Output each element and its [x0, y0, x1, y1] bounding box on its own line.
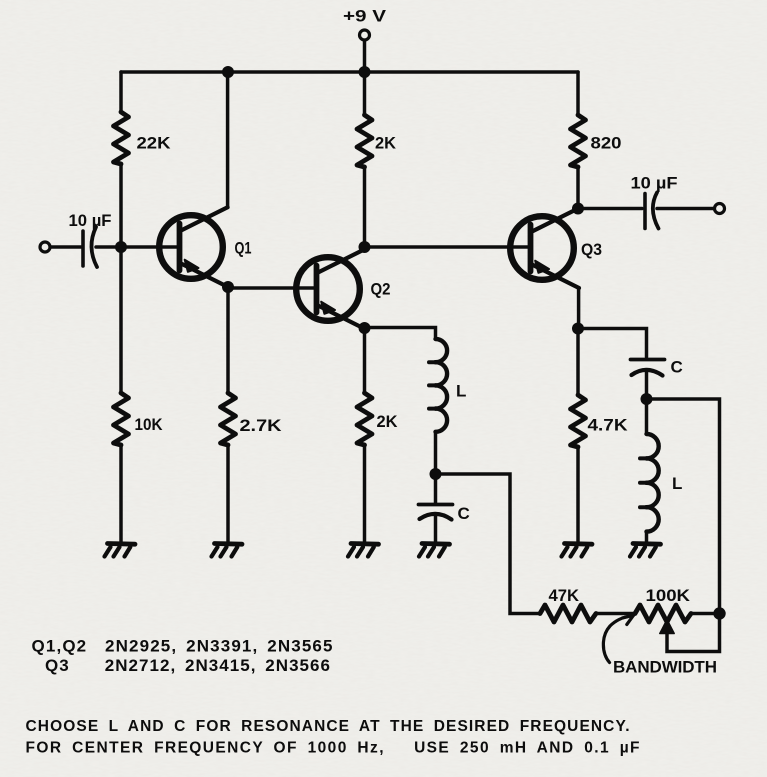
ground C1 [419, 544, 450, 557]
wire Q1 emitter down to 2.7K [226, 287, 230, 393]
potentiometer 100K track [635, 605, 691, 622]
wire 22K bottom to input node [119, 164, 123, 247]
input terminal [40, 242, 50, 252]
ground 4.7K [562, 544, 593, 557]
inductor L1 [429, 339, 447, 432]
node junction on rail at x365 [359, 66, 371, 78]
wire Q1 emitter to Q2 base [228, 286, 317, 290]
svg-text:C: C [671, 358, 683, 377]
wire 2K to ground [363, 445, 367, 542]
wire Q3 emitter riser [577, 288, 581, 329]
ground 2.7K [212, 544, 243, 557]
svg-text:Q1: Q1 [235, 239, 252, 258]
ground 2K [348, 544, 379, 557]
wire input terminal to capacitor [51, 245, 82, 249]
resistor 10K [114, 393, 129, 445]
ground L2 [630, 544, 661, 557]
capacitor C2 straight plate [631, 358, 665, 362]
svg-text:CHOOSE L AND C FOR RESONANCE A: CHOOSE L AND C FOR RESONANCE AT THE DESI… [26, 718, 630, 735]
svg-text:10 µF: 10 µF [631, 174, 678, 193]
wire collector node to output cap [578, 207, 642, 211]
wire 10K to ground [119, 445, 123, 542]
ground 10K [105, 544, 136, 557]
node Q3 emitter [572, 323, 584, 335]
wire L1 to node [434, 432, 438, 474]
wire 2K bottom to node [363, 167, 367, 247]
svg-text:Q2: Q2 [371, 280, 391, 299]
svg-text:C: C [458, 504, 470, 523]
potentiometer wiper arrow [660, 620, 674, 634]
svg-text:L: L [672, 474, 682, 493]
capacitor C2 curved plate [632, 370, 663, 376]
resistor 47K [540, 605, 596, 622]
wire rail to 22K [119, 72, 123, 112]
svg-text:FOR CENTER FREQUENCY OF 1000 H: FOR CENTER FREQUENCY OF 1000 Hz, USE 250… [26, 740, 640, 757]
output terminal [715, 204, 725, 214]
arrow bandwidth pointer [603, 615, 633, 662]
svg-text:L: L [456, 382, 466, 401]
wire node to L2 [645, 399, 649, 434]
wire output cap to terminal [657, 207, 714, 211]
node Q2 collector / Q3 base [359, 241, 371, 253]
transistor Q3 [510, 208, 579, 288]
svg-text:820: 820 [591, 134, 622, 153]
wire Q2 emitter down to 2K [363, 328, 367, 393]
wire Q1 base lead [121, 245, 179, 249]
transistor Q2 [296, 249, 365, 329]
svg-text:10 µF: 10 µF [69, 211, 112, 230]
svg-text:47K: 47K [549, 586, 580, 605]
wire 2.7K to ground [226, 445, 230, 542]
svg-text:2.7K: 2.7K [240, 416, 283, 435]
node Q2 emitter [359, 322, 371, 334]
resistor 2K emitter Q2 [357, 393, 372, 445]
resistor 4.7K [571, 395, 586, 447]
wire L2 to ground [645, 532, 649, 542]
capacitor C1 curved plate [420, 514, 452, 520]
node junction on rail at x228 (Q1 collector) [222, 66, 234, 78]
wire top supply rail [121, 70, 578, 74]
wire Q2 emitter to L1 [365, 328, 436, 340]
wire 4.7K to ground [576, 447, 580, 542]
wire right riser [647, 399, 720, 614]
node Q1 emitter [222, 281, 234, 293]
resistor 820 [571, 115, 586, 167]
svg-text:Q3 2N2712, 2N3415, 2N3566: Q3 2N2712, 2N3415, 2N3566 [45, 656, 330, 675]
wire 820 to collector node [576, 167, 580, 209]
node input/base junction [115, 241, 127, 253]
wire C1 to ground [434, 515, 438, 543]
wire C2 to node [645, 371, 649, 400]
capacitor 10uF input, curved plate [91, 227, 97, 267]
wire node down to 10K [119, 247, 123, 393]
svg-text:BANDWIDTH: BANDWIDTH [613, 658, 717, 677]
svg-text:2K: 2K [375, 134, 397, 153]
wire rail to 820 [576, 72, 580, 115]
wire wiper to junction [667, 614, 720, 652]
wire Q3 emitter to C2 [578, 329, 647, 358]
transistor Q1 [159, 207, 228, 287]
wire rail to 2K top [363, 72, 367, 115]
power terminal +9V [360, 30, 370, 40]
svg-text:Q3: Q3 [581, 240, 602, 259]
capacitor 10uF output curved plate [653, 193, 659, 229]
capacitor 10uF input, straight plate [81, 231, 85, 266]
node L1/C1 tank [430, 468, 442, 480]
node L2/C2 tank [641, 393, 653, 405]
resistor 2.7K [221, 393, 236, 445]
resistor 2K (collector load Q2) [357, 115, 372, 167]
wire Q1 collector riser [226, 72, 230, 207]
inductor L2 [640, 434, 659, 532]
wire 100K to junction [691, 612, 720, 616]
svg-text:Q1,Q2 2N2925, 2N3391, 2N3565: Q1,Q2 2N2925, 2N3391, 2N3565 [32, 637, 333, 656]
wire node to C1 [434, 474, 438, 503]
svg-text:+9 V: +9 V [343, 7, 387, 26]
svg-text:4.7K: 4.7K [588, 416, 629, 435]
capacitor C1 straight plate [419, 503, 453, 507]
svg-text:10K: 10K [135, 415, 164, 434]
svg-text:22K: 22K [137, 134, 172, 153]
resistor 22K [114, 112, 129, 164]
wire 47K to 100K [596, 612, 635, 616]
node Q3 collector [572, 203, 584, 215]
capacitor 10uF output straight plate [643, 194, 647, 229]
wire capacitor to input node [96, 245, 121, 249]
wire +9V terminal to rail [363, 41, 367, 73]
wire Q3 base [365, 245, 531, 249]
svg-text:100K: 100K [646, 586, 691, 605]
svg-text:2K: 2K [377, 412, 399, 431]
wire tank node to pot row [436, 474, 541, 614]
node pot right junction [713, 607, 725, 619]
wire Q3 emitter to 4.7K [576, 329, 580, 396]
